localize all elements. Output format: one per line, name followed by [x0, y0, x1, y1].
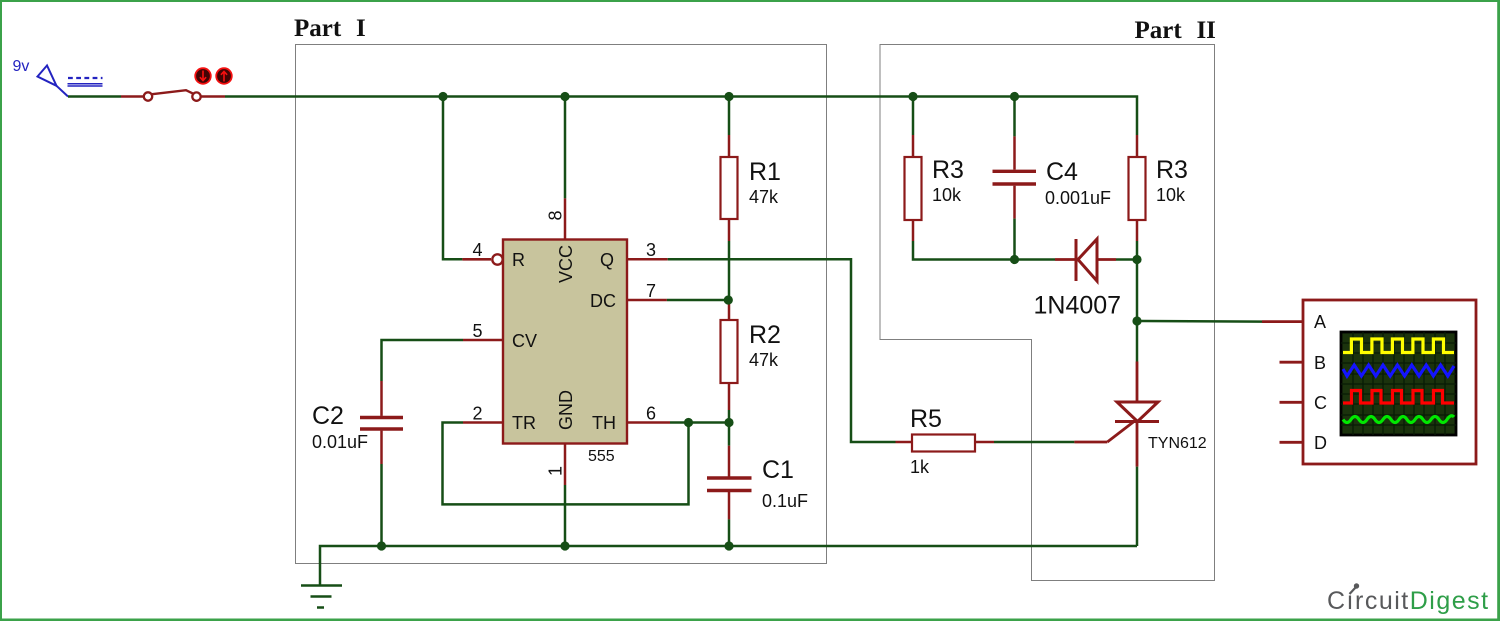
connector J1 pin A stub	[1262, 320, 1303, 323]
svg-text:10k: 10k	[1156, 185, 1186, 205]
wire R1 bottom to DC node	[728, 241, 731, 300]
svg-text:R1: R1	[749, 158, 781, 186]
switch button up	[216, 68, 232, 84]
red square trace	[1343, 391, 1454, 404]
ground symbol	[301, 586, 342, 608]
svg-text:C4: C4	[1046, 158, 1078, 186]
wire C1 to ground rail	[728, 519, 731, 546]
wire A-node down to SCR	[1136, 321, 1139, 362]
node C4 bottom	[1010, 255, 1019, 264]
pin 3 Q stub	[627, 258, 668, 261]
svg-text:7: 7	[646, 281, 656, 301]
main power rail wire	[225, 97, 1137, 136]
svg-text:GND: GND	[556, 390, 576, 430]
wire node to A-node	[1136, 260, 1139, 322]
svg-text:A: A	[1314, 312, 1326, 332]
diode D1 1N4007	[1034, 239, 1122, 320]
reset bubble pin 4	[492, 254, 502, 264]
wire R3 right bottom to node	[1136, 241, 1139, 260]
resistor R3 (left)	[905, 135, 964, 241]
svg-text:1: 1	[546, 466, 566, 476]
pin 1 GND stub	[564, 444, 567, 486]
svg-text:CV: CV	[512, 331, 537, 351]
Part I boundary box	[296, 45, 827, 564]
pin 7 DC stub	[627, 299, 667, 302]
wire TH to R2/C1 node	[670, 421, 729, 424]
node gnd C2	[377, 541, 386, 550]
svg-text:5: 5	[473, 321, 483, 341]
node gnd IC	[560, 541, 569, 550]
SCR TYN612	[1074, 362, 1206, 467]
wire rail to C4	[1013, 97, 1016, 137]
capacitor C2	[312, 381, 403, 464]
wire TR loop to TH	[443, 423, 689, 505]
wire CV to C2	[382, 340, 464, 381]
svg-text:0.1uF: 0.1uF	[762, 491, 808, 511]
svg-text:9v: 9v	[13, 58, 30, 75]
wire rail to R3 (left)	[912, 97, 915, 136]
wire Q to gate resistor R5	[668, 259, 896, 442]
svg-text:TYN612: TYN612	[1148, 435, 1207, 452]
svg-text:VCC: VCC	[556, 245, 576, 283]
pin 2 TR stub	[463, 421, 503, 424]
svg-text:Part II: Part II	[1135, 17, 1216, 44]
wire battery to switch	[68, 95, 121, 98]
svg-text:C: C	[1314, 393, 1327, 413]
wire C2 to ground rail	[380, 464, 383, 546]
green sine trace	[1343, 416, 1454, 423]
node rail/C4	[1010, 92, 1019, 101]
svg-text:8: 8	[546, 210, 566, 220]
wire R2 bottom to TH node	[728, 410, 731, 423]
node gnd C1	[724, 541, 733, 550]
svg-text:0.001uF: 0.001uF	[1045, 188, 1111, 208]
resistor R1	[721, 135, 781, 241]
node rail/pin8	[560, 92, 569, 101]
wire rail to pin4	[443, 97, 462, 260]
wire DC to node	[667, 299, 728, 302]
node TH right	[724, 418, 733, 427]
wire A-node to connector	[1137, 320, 1262, 323]
connector J1 pin D stub	[1280, 441, 1304, 444]
wire SCR cathode to ground rail	[1136, 467, 1139, 546]
node TH left	[684, 418, 693, 427]
svg-text:TR: TR	[512, 413, 536, 433]
svg-text:4: 4	[473, 240, 483, 260]
blue triangle trace	[1343, 365, 1454, 376]
svg-text:R3: R3	[932, 156, 964, 184]
pin 5 CV stub	[463, 339, 503, 342]
Part II boundary box (L-shape)	[880, 45, 1215, 581]
node rail/pin4	[438, 92, 447, 101]
resistor R3 (right)	[1129, 135, 1188, 241]
svg-text:DC: DC	[590, 291, 616, 311]
switch button down	[195, 68, 211, 84]
connector J1 pin C stub	[1280, 401, 1304, 404]
connector J1 pin B stub	[1280, 361, 1304, 364]
svg-text:10k: 10k	[932, 185, 962, 205]
capacitor C4	[993, 136, 1112, 218]
svg-text:Part I: Part I	[294, 15, 366, 42]
wire rail to R1	[728, 97, 731, 136]
svg-text:R3: R3	[1156, 156, 1188, 184]
oscilloscope screen	[1341, 332, 1456, 435]
yellow square trace	[1343, 339, 1454, 353]
node rail/R1	[724, 92, 733, 101]
svg-text:R5: R5	[910, 405, 942, 433]
node A branch	[1132, 316, 1141, 325]
connector J1 body	[1303, 300, 1476, 464]
node DC	[724, 295, 733, 304]
svg-text:6: 6	[646, 403, 656, 423]
wire TH node down to C1	[728, 423, 731, 446]
svg-text:C2: C2	[312, 402, 344, 430]
pin 8 stub	[564, 198, 567, 239]
wire GND to ground rail	[564, 485, 567, 546]
svg-text:1k: 1k	[910, 457, 930, 477]
svg-text:47k: 47k	[749, 350, 779, 370]
wire rail to pin8	[564, 97, 567, 199]
capacitor C1	[707, 446, 808, 520]
svg-text:TH: TH	[592, 413, 616, 433]
svg-text:47k: 47k	[749, 187, 779, 207]
svg-text:B: B	[1314, 353, 1326, 373]
svg-text:R2: R2	[749, 321, 781, 349]
wire C4 to diode row	[1013, 219, 1016, 260]
svg-text:1N4007: 1N4007	[1034, 292, 1122, 320]
svg-text:R: R	[512, 250, 525, 270]
wire R3 bottom to diode row	[913, 241, 1055, 260]
svg-text:3: 3	[646, 240, 656, 260]
battery B1 9v (blue)	[13, 58, 103, 97]
wire diode to R3 right node	[1116, 258, 1137, 261]
CircuitDigest logo	[1327, 583, 1490, 615]
switch SW1	[121, 90, 225, 101]
svg-text:Q: Q	[600, 250, 614, 270]
svg-text:555: 555	[588, 448, 615, 465]
svg-text:2: 2	[473, 403, 483, 423]
node diode/R3	[1132, 255, 1141, 264]
resistor R2	[721, 300, 781, 410]
resistor R5	[896, 405, 995, 477]
node rail/R3 left	[908, 92, 917, 101]
svg-text:C1: C1	[762, 456, 794, 484]
svg-text:0.01uF: 0.01uF	[312, 432, 368, 452]
svg-text:D: D	[1314, 433, 1327, 453]
ground rail wire	[320, 546, 1137, 585]
wire R5 to SCR gate	[994, 441, 1074, 444]
555 IC U1	[503, 240, 627, 466]
pin 4 stub	[462, 258, 491, 261]
pin 6 TH stub	[627, 421, 670, 424]
